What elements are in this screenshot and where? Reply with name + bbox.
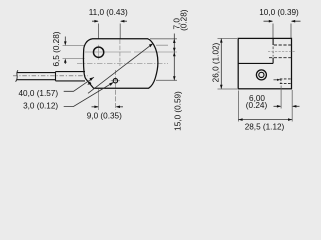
hidden hole tangent dashes bottom [269,57,291,59]
dim 10.0 arrows [264,20,301,22]
leader 40.0 to lead [64,77,94,91]
arrowhead at chamfer [87,81,91,85]
dim 26.0 line [220,38,222,89]
arrows 7.0 [173,39,176,43]
wire: tangent stub right of body [156,44,168,46]
lead thick section [56,72,86,81]
small hole (3.0 dia) [113,79,117,83]
wire: extension line 11.0 right [119,24,121,39]
wire: lead dash-dot centerline [13,75,88,77]
leader 3.0 to small hole [64,82,114,106]
hidden slot dashes [280,79,292,84]
svg-text:11,0 (0.43): 11,0 (0.43) [89,8,128,17]
pilot ring circle inner [259,72,264,77]
hidden hole centerline [268,51,296,53]
wire: 9.0 left extension below body [98,89,100,110]
dim 28.5 line [238,119,292,121]
svg-text:9,0 (0.35): 9,0 (0.35) [87,111,122,120]
leader to top-right arc [88,44,153,94]
wire: hole crosshair vertical [98,45,100,60]
wire: hole centerline horizontal [85,51,177,53]
svg-text:40,0 (1.57): 40,0 (1.57) [18,89,58,98]
wire: top edge extension to 7.0 dim [150,38,177,40]
extension lines 6.00 dim [280,86,282,109]
wire: small hole centerline vertical (9.0 right ext) [115,70,117,110]
extension lines 10.0 dim [273,24,291,39]
hidden hole tangent dashes top [274,44,292,46]
dim 11.0 arrows [92,20,127,22]
internal horizontal line [238,62,273,64]
wire: body horizontal centerline [77,62,168,64]
internal vertical line (flange back face) [272,38,274,63]
arrowhead at arc [149,44,153,48]
dim 7.0 / 15.0 vertical line [173,34,175,81]
svg-text:3,0 (0.12): 3,0 (0.12) [23,102,58,111]
dim 9.0 arrows [92,106,124,108]
wire: lead bottom extension to 15.0 dim [156,79,177,81]
svg-text:26,0 (1.02): 26,0 (1.02) [212,42,221,82]
svg-text:(0.24): (0.24) [246,101,268,110]
svg-text:15,0 (0.59): 15,0 (0.59) [173,91,182,131]
dim 6.5 line + arrows [64,37,66,65]
mounting hole [93,47,103,57]
wire: flange width centerline dashed [119,40,121,67]
wire: small hole crosshair horizontal [111,80,120,82]
lead break squiggle [16,70,18,81]
wire: hole tangent tick top (6.5 dim) [63,45,85,47]
lead thin section [17,73,56,80]
svg-text:28,5 (1.12): 28,5 (1.12) [245,123,285,132]
wire: hole tangent tick bottom (6.5 dim) [63,58,85,60]
arrowhead 3.0 leader [109,82,113,86]
arrowhead 40.0 leader [90,77,94,81]
pilot ring circle outer [256,70,266,80]
svg-text:(0.28): (0.28) [179,9,188,31]
side view outline [238,38,291,88]
wire: extension line 11.0 left (hole center) [98,24,100,39]
extension line 28.5 left [237,91,239,122]
arrow at slot [277,79,281,81]
svg-text:6,5 (0.28): 6,5 (0.28) [52,31,61,66]
ticks 26.0 [218,38,238,89]
svg-text:10,0 (0.39): 10,0 (0.39) [259,8,299,17]
dim 6.00 arrows [274,105,300,107]
arrows 15.0 [173,52,176,56]
body outline (flange) [83,39,157,89]
